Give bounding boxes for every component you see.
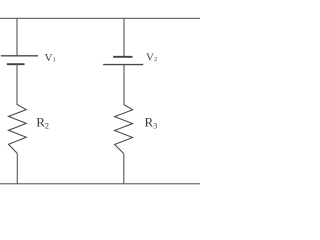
wire: left branch lower	[16, 153, 18, 184]
resistor R3 zigzag	[115, 105, 133, 154]
wire: right branch middle	[123, 65, 125, 106]
svg-text:V1: V1	[45, 52, 56, 64]
svg-text:V2: V2	[146, 51, 157, 63]
battery V1 long plate (+)	[1, 55, 38, 57]
wire: left branch upper	[16, 18, 18, 56]
svg-text:R2: R2	[36, 115, 49, 131]
wire: right branch upper	[123, 18, 125, 56]
top rail wire	[0, 17, 200, 19]
resistor R2 zigzag	[9, 104, 27, 153]
battery V2 long plate (+)	[103, 64, 143, 66]
bottom rail wire	[0, 183, 200, 185]
svg-text:R3: R3	[145, 115, 158, 131]
battery V1 short plate (-)	[7, 63, 25, 65]
wire: right branch lower	[123, 154, 125, 184]
wire: left branch middle	[16, 64, 18, 105]
battery V2 short plate (-)	[113, 56, 132, 58]
